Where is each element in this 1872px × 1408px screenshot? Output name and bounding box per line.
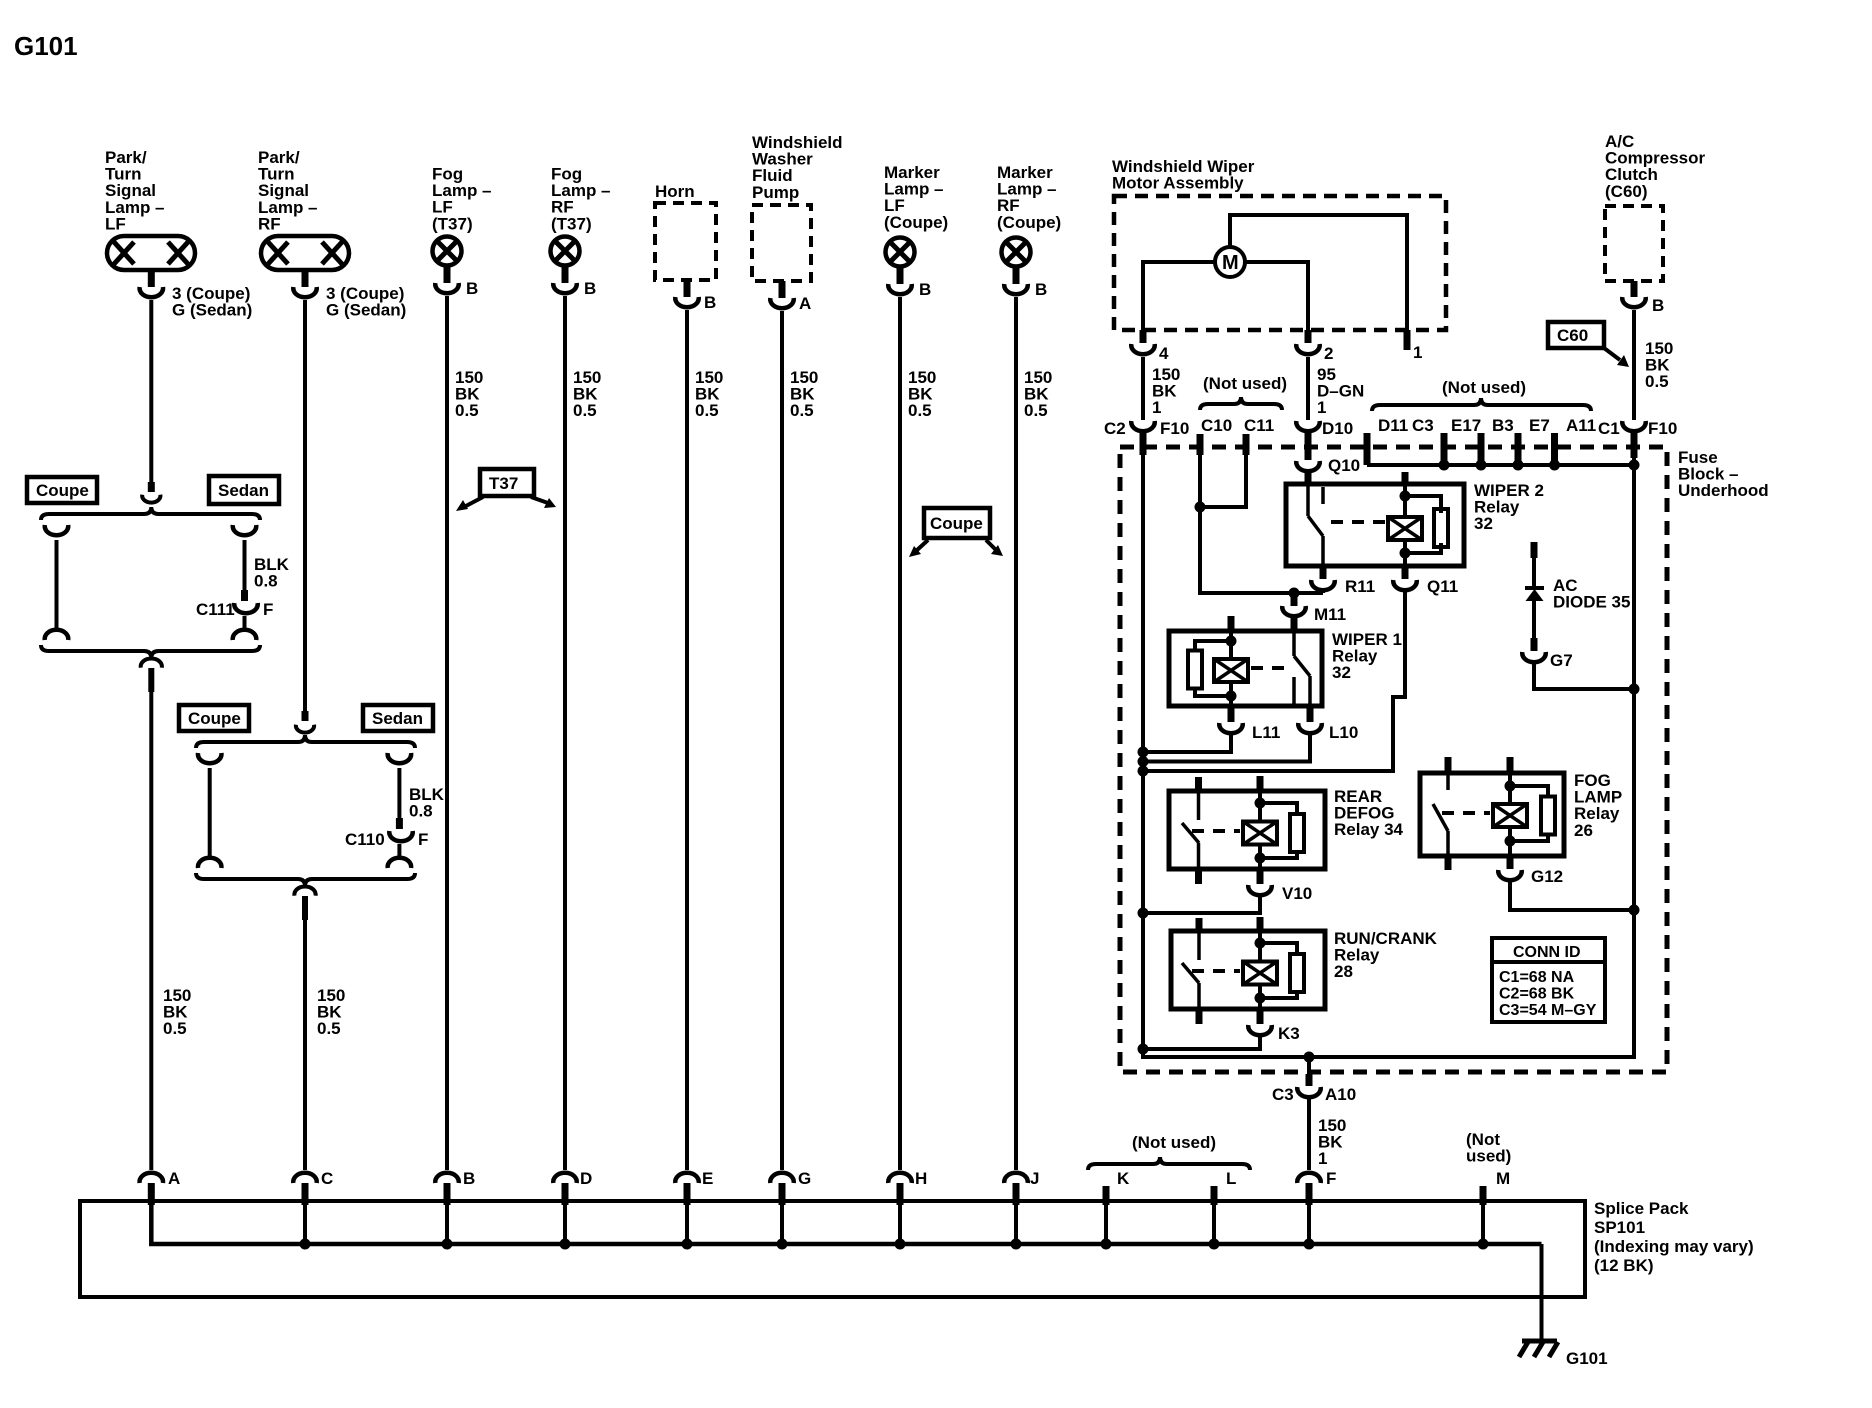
junction dot splice B [442, 1239, 453, 1250]
svg-text:28: 28 [1334, 962, 1353, 981]
splice pin D drop wire [563, 1205, 567, 1244]
svg-text:2: 2 [1324, 344, 1333, 363]
junction dot splice M [1478, 1239, 1489, 1250]
connector G12 arc [1498, 870, 1522, 880]
splice pin E stub [684, 1183, 691, 1205]
(Not used) label M [1466, 1130, 1511, 1166]
svg-text:Sedan: Sedan [218, 481, 269, 500]
svg-text:4: 4 [1159, 344, 1169, 363]
svg-text:Coupe: Coupe [188, 709, 241, 728]
REAR DEFOG switch [1182, 791, 1199, 869]
junction dot splice F [1304, 1239, 1315, 1250]
splice pin E drop wire [685, 1205, 689, 1244]
splice pin C drop wire [303, 1205, 307, 1244]
svg-text:0.5: 0.5 [573, 401, 597, 420]
splice pin A connector arc [140, 1173, 164, 1183]
svg-text:B: B [704, 293, 716, 312]
wire C break stub at split [302, 711, 309, 721]
junction dot WIPER 2 coil top [1400, 491, 1411, 502]
Fuse Block Underhood dashed border [1120, 447, 1667, 1072]
junction dot C10/C11 [1195, 502, 1206, 513]
brace over D11..A11 [1372, 398, 1591, 411]
junction dot splice D [560, 1239, 571, 1250]
G12 stub [1507, 856, 1514, 869]
wire C split connector arc [296, 725, 314, 733]
wire motor top to pin 1 [1230, 215, 1407, 330]
Q10 stub into WIPER 2 relay [1305, 472, 1312, 486]
wire V10 to left bus [1143, 895, 1260, 913]
Marker Lamp LF pin stub [897, 268, 904, 284]
splice pin L drop wire [1212, 1205, 1216, 1244]
T37 arrow right [531, 497, 556, 508]
svg-text:Splice Pack: Splice Pack [1594, 1199, 1689, 1218]
svg-text:B: B [1652, 296, 1664, 315]
splice pin D stub [562, 1183, 569, 1205]
splice pin B drop wire [445, 1205, 449, 1244]
L10 stub [1307, 706, 1314, 722]
svg-text:0.5: 0.5 [908, 401, 932, 420]
Park/Turn Signal Lamp RF label [258, 148, 318, 233]
junction dot WIPER 1 coil top [1226, 636, 1237, 647]
Park/Turn Signal Lamp LF label [105, 148, 165, 233]
Sedan callout box (section 1) [209, 476, 279, 504]
resistor FOG LAMP [1541, 797, 1555, 835]
junction dot WIPER 1 coil bottom [1226, 691, 1237, 702]
svg-text:Horn: Horn [655, 182, 695, 201]
merge brace bottom (section 2) [196, 873, 415, 886]
Coupe branch top arc (section 1) [45, 525, 69, 535]
pin E17 stub [1441, 433, 1448, 465]
svg-text:B: B [463, 1169, 475, 1188]
junction dot E7 bus [1513, 460, 1524, 471]
Coupe callout box (marker lamps) [924, 508, 990, 538]
junction dot RUN/CRANK coil bottom [1255, 993, 1266, 1004]
Splice Pack SP101 box [80, 1201, 1585, 1297]
Sedan branch wire upper (section 2) [397, 768, 401, 818]
WIPER 2 coil wiring [1403, 486, 1407, 519]
svg-text:B: B [584, 279, 596, 298]
Sedan branch label BLK 0.8 [254, 555, 290, 591]
svg-text:R11: R11 [1345, 577, 1375, 596]
wire net J full segment [1014, 297, 1018, 1170]
WIPER 1 coil wiring [1229, 631, 1233, 660]
Park/Turn Signal Lamp LF symbol [107, 236, 195, 270]
connector L10 arc [1298, 723, 1322, 733]
connector Q11 arc [1393, 580, 1417, 590]
svg-text:(Not used): (Not used) [1203, 374, 1287, 393]
svg-text:E7: E7 [1529, 416, 1550, 435]
svg-text:M11: M11 [1314, 605, 1346, 624]
svg-text:1: 1 [1318, 1149, 1327, 1168]
svg-text:Coupe: Coupe [36, 481, 89, 500]
svg-text:RF: RF [258, 214, 281, 233]
Splice Pack SP101 label [1594, 1199, 1754, 1275]
wire C size label 150 BK 0.5 [317, 986, 345, 1038]
Park/Turn RF pin stub [302, 272, 309, 287]
motor pin 2 stub [1305, 330, 1312, 343]
Park/Turn LF pin stub [148, 272, 155, 287]
L11 stub [1228, 706, 1235, 722]
FOG LAMP switch bottom stub [1445, 856, 1452, 870]
junction dot REAR DEFOG coil top [1255, 798, 1266, 809]
svg-text:0.5: 0.5 [790, 401, 814, 420]
A10 stub [1306, 1074, 1313, 1086]
svg-text:Sedan: Sedan [372, 709, 423, 728]
svg-text:Q11: Q11 [1427, 577, 1458, 596]
splice pin C stub [302, 1183, 309, 1205]
splice pin L stub [1211, 1186, 1218, 1205]
junction dot splice K [1101, 1239, 1112, 1250]
REAR DEFOG coil unconnected stub [1257, 776, 1264, 791]
splice pin B stub [444, 1183, 451, 1205]
Coupe marker arrow left [909, 540, 928, 557]
svg-text:SP101: SP101 [1594, 1218, 1645, 1237]
connector G7 arc [1522, 652, 1546, 662]
svg-text:H: H [915, 1169, 927, 1188]
splice pin D connector arc [553, 1173, 577, 1183]
splice pin J stub [1013, 1183, 1020, 1205]
junction dot M11 [1289, 588, 1300, 599]
junction dot WIPER 2 coil bottom [1400, 548, 1411, 559]
wire net C upper segment [303, 300, 307, 711]
svg-text:K3: K3 [1278, 1024, 1300, 1043]
svg-text:32: 32 [1332, 663, 1351, 682]
Sedan branch label BLK 0.8 (section 2) [409, 785, 445, 821]
junction dot splice J [1011, 1239, 1022, 1250]
AC DIODE 35 label [1553, 576, 1630, 612]
Horn dashed box [655, 203, 716, 280]
Sedan branch wire lower (section 2) [397, 844, 401, 856]
svg-text:F: F [263, 600, 273, 619]
svg-text:(12 BK): (12 BK) [1594, 1256, 1654, 1275]
relay WIPER 1 box [1169, 631, 1322, 706]
splice pin E connector arc [675, 1173, 699, 1183]
svg-text:F: F [418, 830, 428, 849]
brace over K L [1088, 1157, 1250, 1170]
junction dot splice C [300, 1239, 311, 1250]
A/C Compressor Clutch dashed box [1605, 206, 1663, 281]
svg-text:C11: C11 [1244, 416, 1274, 435]
Windshield Washer Fluid Pump label [752, 133, 843, 202]
wire net A upper segment [149, 300, 153, 482]
svg-text:0.5: 0.5 [455, 401, 479, 420]
WIPER 1 switch-coil dashed link [1251, 666, 1290, 670]
wire G size label 150 BK 0.5 [790, 368, 818, 420]
wiper motor M circle [1215, 247, 1245, 277]
Q11 stub [1402, 566, 1409, 579]
svg-text:used): used) [1466, 1147, 1511, 1166]
FOG LAMP switch top stub [1445, 757, 1452, 773]
AC DIODE 35 wire upper [1532, 558, 1536, 588]
svg-text:(T37): (T37) [551, 214, 592, 233]
wire C merge connector arc [294, 887, 315, 896]
not-used pin bus [1367, 463, 1634, 467]
svg-text:D: D [580, 1169, 592, 1188]
svg-text:0.8: 0.8 [254, 572, 278, 591]
svg-text:C3=54 M–GY: C3=54 M–GY [1499, 1002, 1597, 1019]
svg-text:DIODE 35: DIODE 35 [1553, 593, 1630, 612]
resistor WIPER 2 [1434, 509, 1448, 547]
RUN/CRANK switch [1182, 931, 1199, 1009]
svg-text:1: 1 [1317, 398, 1326, 417]
wire label 95 D-GN 1 [1317, 365, 1364, 417]
junction dot G12 at right bus [1629, 905, 1640, 916]
Coupe callout box (section 1) [27, 477, 97, 503]
junction dot E17 bus [1439, 460, 1450, 471]
junction dot splice L [1209, 1239, 1220, 1250]
Sedan branch top arc (section 2) [388, 753, 412, 763]
pin E7 stub [1515, 433, 1522, 465]
splice pin H drop wire [898, 1205, 902, 1244]
Sedan branch top arc (section 1) [233, 525, 257, 535]
Park/Turn RF pin label 3 (Coupe) G (Sedan) [326, 284, 406, 320]
svg-text:B3: B3 [1492, 416, 1514, 435]
svg-text:B: B [466, 279, 478, 298]
junction dot A11 bus [1549, 460, 1560, 471]
A/C clutch connector arc pin B [1622, 297, 1646, 307]
wire motor right to pin 2 [1245, 262, 1308, 339]
pin B3 stub [1478, 433, 1485, 465]
svg-text:M: M [1496, 1169, 1510, 1188]
Coupe branch top arc (section 2) [198, 753, 222, 763]
splice pin C connector arc [293, 1173, 317, 1183]
wire splice to ground G101 [1540, 1244, 1544, 1341]
svg-text:G12: G12 [1531, 867, 1563, 886]
relay coil WIPER 2 [1388, 517, 1422, 540]
junction dot C1 bus [1629, 460, 1640, 471]
Marker Lamp RF pin stub [1013, 268, 1020, 284]
svg-text:0.5: 0.5 [695, 401, 719, 420]
connector C2/F10 arc [1131, 421, 1155, 431]
svg-text:(C60): (C60) [1605, 182, 1648, 201]
wire net H full segment [898, 297, 902, 1170]
G7 stub [1531, 638, 1538, 651]
splice pin F connector arc [1297, 1173, 1321, 1183]
REAR DEFOG switch bottom stub [1195, 869, 1202, 884]
connector K3 arc [1248, 1025, 1272, 1035]
Sedan branch C110 stub [396, 818, 403, 829]
FOG LAMP switch-coil dashed link [1442, 811, 1490, 815]
Coupe branch bottom arc (section 2) [198, 858, 222, 868]
merge brace bottom (section 1) [41, 645, 260, 658]
junction dot splice E [682, 1239, 693, 1250]
wire L10 to left bus [1143, 734, 1310, 762]
splice pin G connector arc [770, 1173, 794, 1183]
RUN/CRANK coil unconnected stub [1257, 917, 1264, 931]
splice pin K drop wire [1104, 1205, 1108, 1244]
C2/F10 stub into fuse block [1140, 432, 1147, 455]
wire G7 to right bus [1534, 662, 1634, 689]
svg-text:D10: D10 [1322, 419, 1353, 438]
junction dot L11 at bus [1138, 747, 1149, 758]
wire label 150 BK 0.5 (A/C) [1645, 339, 1673, 391]
wire C10 internal [1198, 455, 1202, 593]
Fog Lamp RF pin stub [562, 267, 569, 283]
svg-text:26: 26 [1574, 821, 1593, 840]
Coupe callout box (section 2) [179, 705, 249, 731]
wire A10 drop [1307, 1057, 1311, 1074]
Marker Lamp LF label [884, 163, 948, 232]
wire label 150 BK 1 [1152, 365, 1180, 417]
svg-text:(T37): (T37) [432, 214, 473, 233]
wire C merge stub [302, 896, 308, 920]
svg-text:Pump: Pump [752, 183, 799, 202]
svg-text:A10: A10 [1325, 1085, 1356, 1104]
R11 stub [1320, 566, 1327, 579]
junction dot RUN/CRANK coil top [1255, 938, 1266, 949]
Marker Lamp LF symbol [886, 238, 915, 267]
wire A merge connector arc [141, 659, 162, 668]
Coupe marker arrow right [986, 540, 1003, 556]
svg-text:Coupe: Coupe [930, 514, 983, 533]
splice pin G drop wire [780, 1205, 784, 1244]
svg-text:J: J [1030, 1169, 1039, 1188]
svg-text:A: A [168, 1169, 180, 1188]
motor pin 1 stub [1404, 330, 1411, 350]
T37 arrow left [456, 497, 483, 511]
svg-text:F: F [1326, 1169, 1336, 1188]
resistor WIPER 1 [1188, 651, 1202, 689]
svg-text:0.8: 0.8 [409, 802, 433, 821]
REAR DEFOG switch-coil dashed link [1192, 829, 1240, 833]
svg-text:C3: C3 [1412, 416, 1434, 435]
wire A split connector arc [142, 495, 160, 503]
svg-text:L11: L11 [1252, 723, 1280, 742]
relay RUN/CRANK label [1334, 929, 1438, 981]
svg-text:C10: C10 [1201, 416, 1232, 435]
wire A break stub at split [148, 482, 155, 492]
Windshield Wiper Motor Assembly label [1112, 157, 1255, 193]
connector M11 arc [1282, 606, 1306, 616]
wire motor left to pin 4 [1143, 262, 1215, 339]
junction dot K3 at bus [1138, 1044, 1149, 1055]
Windshield Wiper Motor Assembly dashed box [1114, 196, 1446, 330]
svg-text:(Not used): (Not used) [1442, 378, 1526, 397]
svg-text:G101: G101 [14, 31, 78, 61]
svg-text:0.5: 0.5 [1645, 372, 1669, 391]
svg-text:C1: C1 [1598, 419, 1620, 438]
A/C Compressor Clutch label [1605, 132, 1706, 201]
wire E size label 150 BK 0.5 [695, 368, 723, 420]
connector C110 arc [389, 831, 413, 841]
junction dot splice H [895, 1239, 906, 1250]
connector C1/F10 arc [1622, 421, 1646, 431]
Fog Lamp LF connector arc pin B [435, 283, 459, 293]
svg-text:F10: F10 [1648, 419, 1677, 438]
wire net D full segment [563, 296, 567, 1170]
REAR DEFOG switch top stub [1195, 777, 1202, 791]
Park/Turn Signal Lamp RF symbol [261, 236, 349, 270]
diode AC DIODE 35 [1525, 588, 1544, 601]
Fog Lamp RF connector arc pin B [553, 283, 577, 293]
Park/Turn LF pin label 3 (Coupe) G (Sedan) [172, 284, 252, 320]
FOG LAMP coil wiring [1508, 773, 1512, 804]
splice pin F stub [1306, 1183, 1313, 1205]
bottom internal bus [1141, 1055, 1636, 1059]
wire D size label 150 BK 0.5 [573, 368, 601, 420]
motor pin 4 connector arc [1131, 344, 1155, 354]
splice pack internal bus SP101 [151, 1205, 1541, 1244]
Fog Lamp RF symbol [551, 237, 580, 266]
M11 stub above arc [1291, 593, 1298, 606]
WIPER 2 coil unconnected stub [1402, 472, 1409, 486]
svg-text:E17: E17 [1451, 416, 1481, 435]
wire pin2 to D10 [1306, 357, 1310, 420]
Marker Lamp RF connector arc pin B [1004, 284, 1028, 294]
Sedan callout box (section 2) [363, 705, 433, 731]
svg-text:C2=68 BK: C2=68 BK [1499, 986, 1575, 1003]
svg-text:F10: F10 [1160, 419, 1189, 438]
REAR DEFOG coil wiring [1258, 791, 1262, 822]
Fog Lamp LF pin stub [444, 267, 451, 283]
wire G12 to right bus [1510, 880, 1634, 910]
connector D10 arc [1296, 421, 1320, 431]
splice pin H connector arc [888, 1173, 912, 1183]
AC DIODE 35 wire lower [1532, 601, 1536, 638]
junction dot B3 bus [1476, 460, 1487, 471]
wire R11 to junction [1321, 590, 1325, 593]
junction dot G7 at right bus [1629, 684, 1640, 695]
relay coil REAR DEFOG [1243, 822, 1277, 845]
svg-text:C: C [321, 1169, 333, 1188]
wire net E full segment [685, 310, 689, 1170]
junction dot splice G [777, 1239, 788, 1250]
wire A lower segment [149, 692, 153, 1170]
brace over C10 C11 [1200, 397, 1282, 410]
motor pin 4 stub [1140, 330, 1147, 343]
Coupe branch wire (section 2) [208, 768, 212, 856]
WIPER 2 switch-coil dashed link [1331, 520, 1386, 524]
connector C111 arc [234, 603, 258, 613]
Sedan branch bottom arc (section 1) [233, 630, 257, 640]
RUN/CRANK switch top stub [1196, 918, 1203, 931]
Sedan branch C111 stub [241, 590, 248, 601]
pin A11 stub [1551, 433, 1558, 465]
Fuse Block Underhood label [1678, 448, 1769, 500]
relay FOG LAMP box [1420, 773, 1564, 856]
svg-text:B: B [919, 280, 931, 299]
svg-text:32: 32 [1474, 514, 1493, 533]
splice pin H stub [897, 1183, 904, 1205]
splice pin M drop wire [1481, 1205, 1485, 1244]
junction dot FOG LAMP coil top [1505, 781, 1516, 792]
AC DIODE 35 top stub [1531, 542, 1538, 558]
relay RUN/CRANK box [1171, 931, 1325, 1009]
relay coil WIPER 1 [1214, 659, 1248, 682]
svg-text:C2: C2 [1104, 419, 1126, 438]
svg-text:V10: V10 [1282, 884, 1312, 903]
svg-text:T37: T37 [489, 474, 518, 493]
ground symbol G101 [1519, 1341, 1558, 1357]
M11 stub into WIPER 1 relay [1291, 618, 1298, 631]
svg-text:G (Sedan): G (Sedan) [326, 301, 406, 320]
relay WIPER 1 label [1332, 630, 1402, 682]
split brace top (section 1) [41, 507, 260, 520]
Washer pump connector arc pin A [770, 298, 794, 308]
connector R11 arc [1311, 580, 1335, 590]
Sedan branch bottom arc (section 2) [388, 858, 412, 868]
svg-text:CONN ID: CONN ID [1513, 944, 1581, 961]
connector L11 arc [1219, 723, 1243, 733]
svg-text:C111: C111 [196, 600, 235, 619]
pin C11 stub [1243, 434, 1250, 455]
svg-text:0.5: 0.5 [163, 1019, 187, 1038]
relay REAR DEFOG label [1334, 787, 1404, 839]
Coupe branch bottom arc (section 1) [45, 630, 69, 640]
Fog Lamp LF label [432, 165, 492, 234]
D10 stub to Q10 [1305, 432, 1312, 460]
CONN ID box [1492, 938, 1605, 1022]
